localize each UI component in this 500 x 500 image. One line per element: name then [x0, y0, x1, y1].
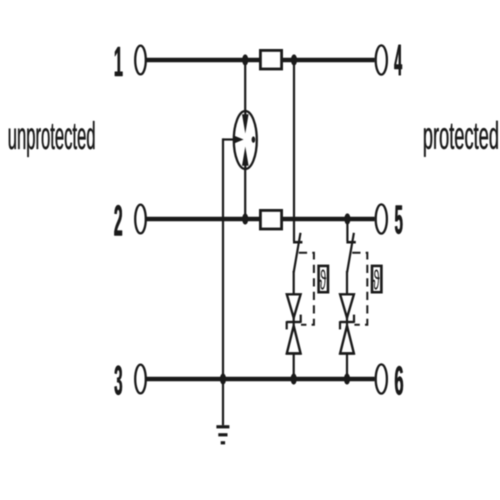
- pin label 4: [394, 45, 402, 75]
- label protected: [424, 121, 498, 157]
- thermal disconnect contact 2: [346, 241, 355, 244]
- terminal 5: [376, 204, 387, 233]
- label unprotected: [9, 121, 95, 157]
- wire gdt upper: [244, 60, 246, 112]
- TVS diode D2: [339, 294, 354, 353]
- wire ground vertical: [222, 138, 224, 425]
- wire line 2: [147, 217, 375, 222]
- wire gdt third electrode: [223, 138, 235, 140]
- terminal 1: [135, 46, 146, 75]
- junction node line2 B: [344, 213, 350, 224]
- resistor R2: [260, 210, 281, 229]
- junction node line3 B: [344, 373, 350, 384]
- dashed link 2: [352, 253, 367, 325]
- wire branch 1 upper: [293, 60, 295, 241]
- pin label 5: [395, 206, 403, 235]
- resistor R1: [260, 50, 281, 69]
- TVS diode D1: [286, 294, 301, 353]
- junction node line1 A: [242, 54, 248, 65]
- wire branch 2 lower: [346, 271, 348, 379]
- junction node line3 ground: [220, 373, 226, 384]
- wire branch 2 upper: [346, 219, 348, 241]
- thermal trip element 2: [372, 266, 381, 292]
- pin label 2: [114, 205, 122, 236]
- wire line 3: [147, 377, 375, 382]
- wire branch 1 lower: [293, 271, 295, 379]
- terminal 3: [135, 365, 146, 394]
- thermal disconnect blade 2: [347, 233, 354, 272]
- wire gdt lower: [244, 168, 246, 219]
- pin label 1: [115, 47, 123, 76]
- junction node line1 B: [291, 54, 297, 65]
- terminal 2: [135, 205, 146, 234]
- wire line 1: [147, 58, 375, 63]
- pin label 6: [395, 366, 403, 395]
- dashed link 1: [299, 253, 314, 325]
- junction node line2 A: [242, 213, 248, 224]
- terminal 4: [376, 45, 387, 74]
- gas discharge tube U1: [234, 111, 257, 169]
- ground: [216, 427, 229, 443]
- terminal 6: [376, 364, 387, 393]
- thermal disconnect contact 1: [293, 241, 302, 244]
- junction node line3 A: [291, 373, 297, 384]
- thermal disconnect blade 1: [294, 233, 301, 272]
- pin label 3: [115, 366, 123, 396]
- thermal trip element 1: [319, 266, 328, 292]
- gdt electrode arrowhead: [233, 135, 243, 144]
